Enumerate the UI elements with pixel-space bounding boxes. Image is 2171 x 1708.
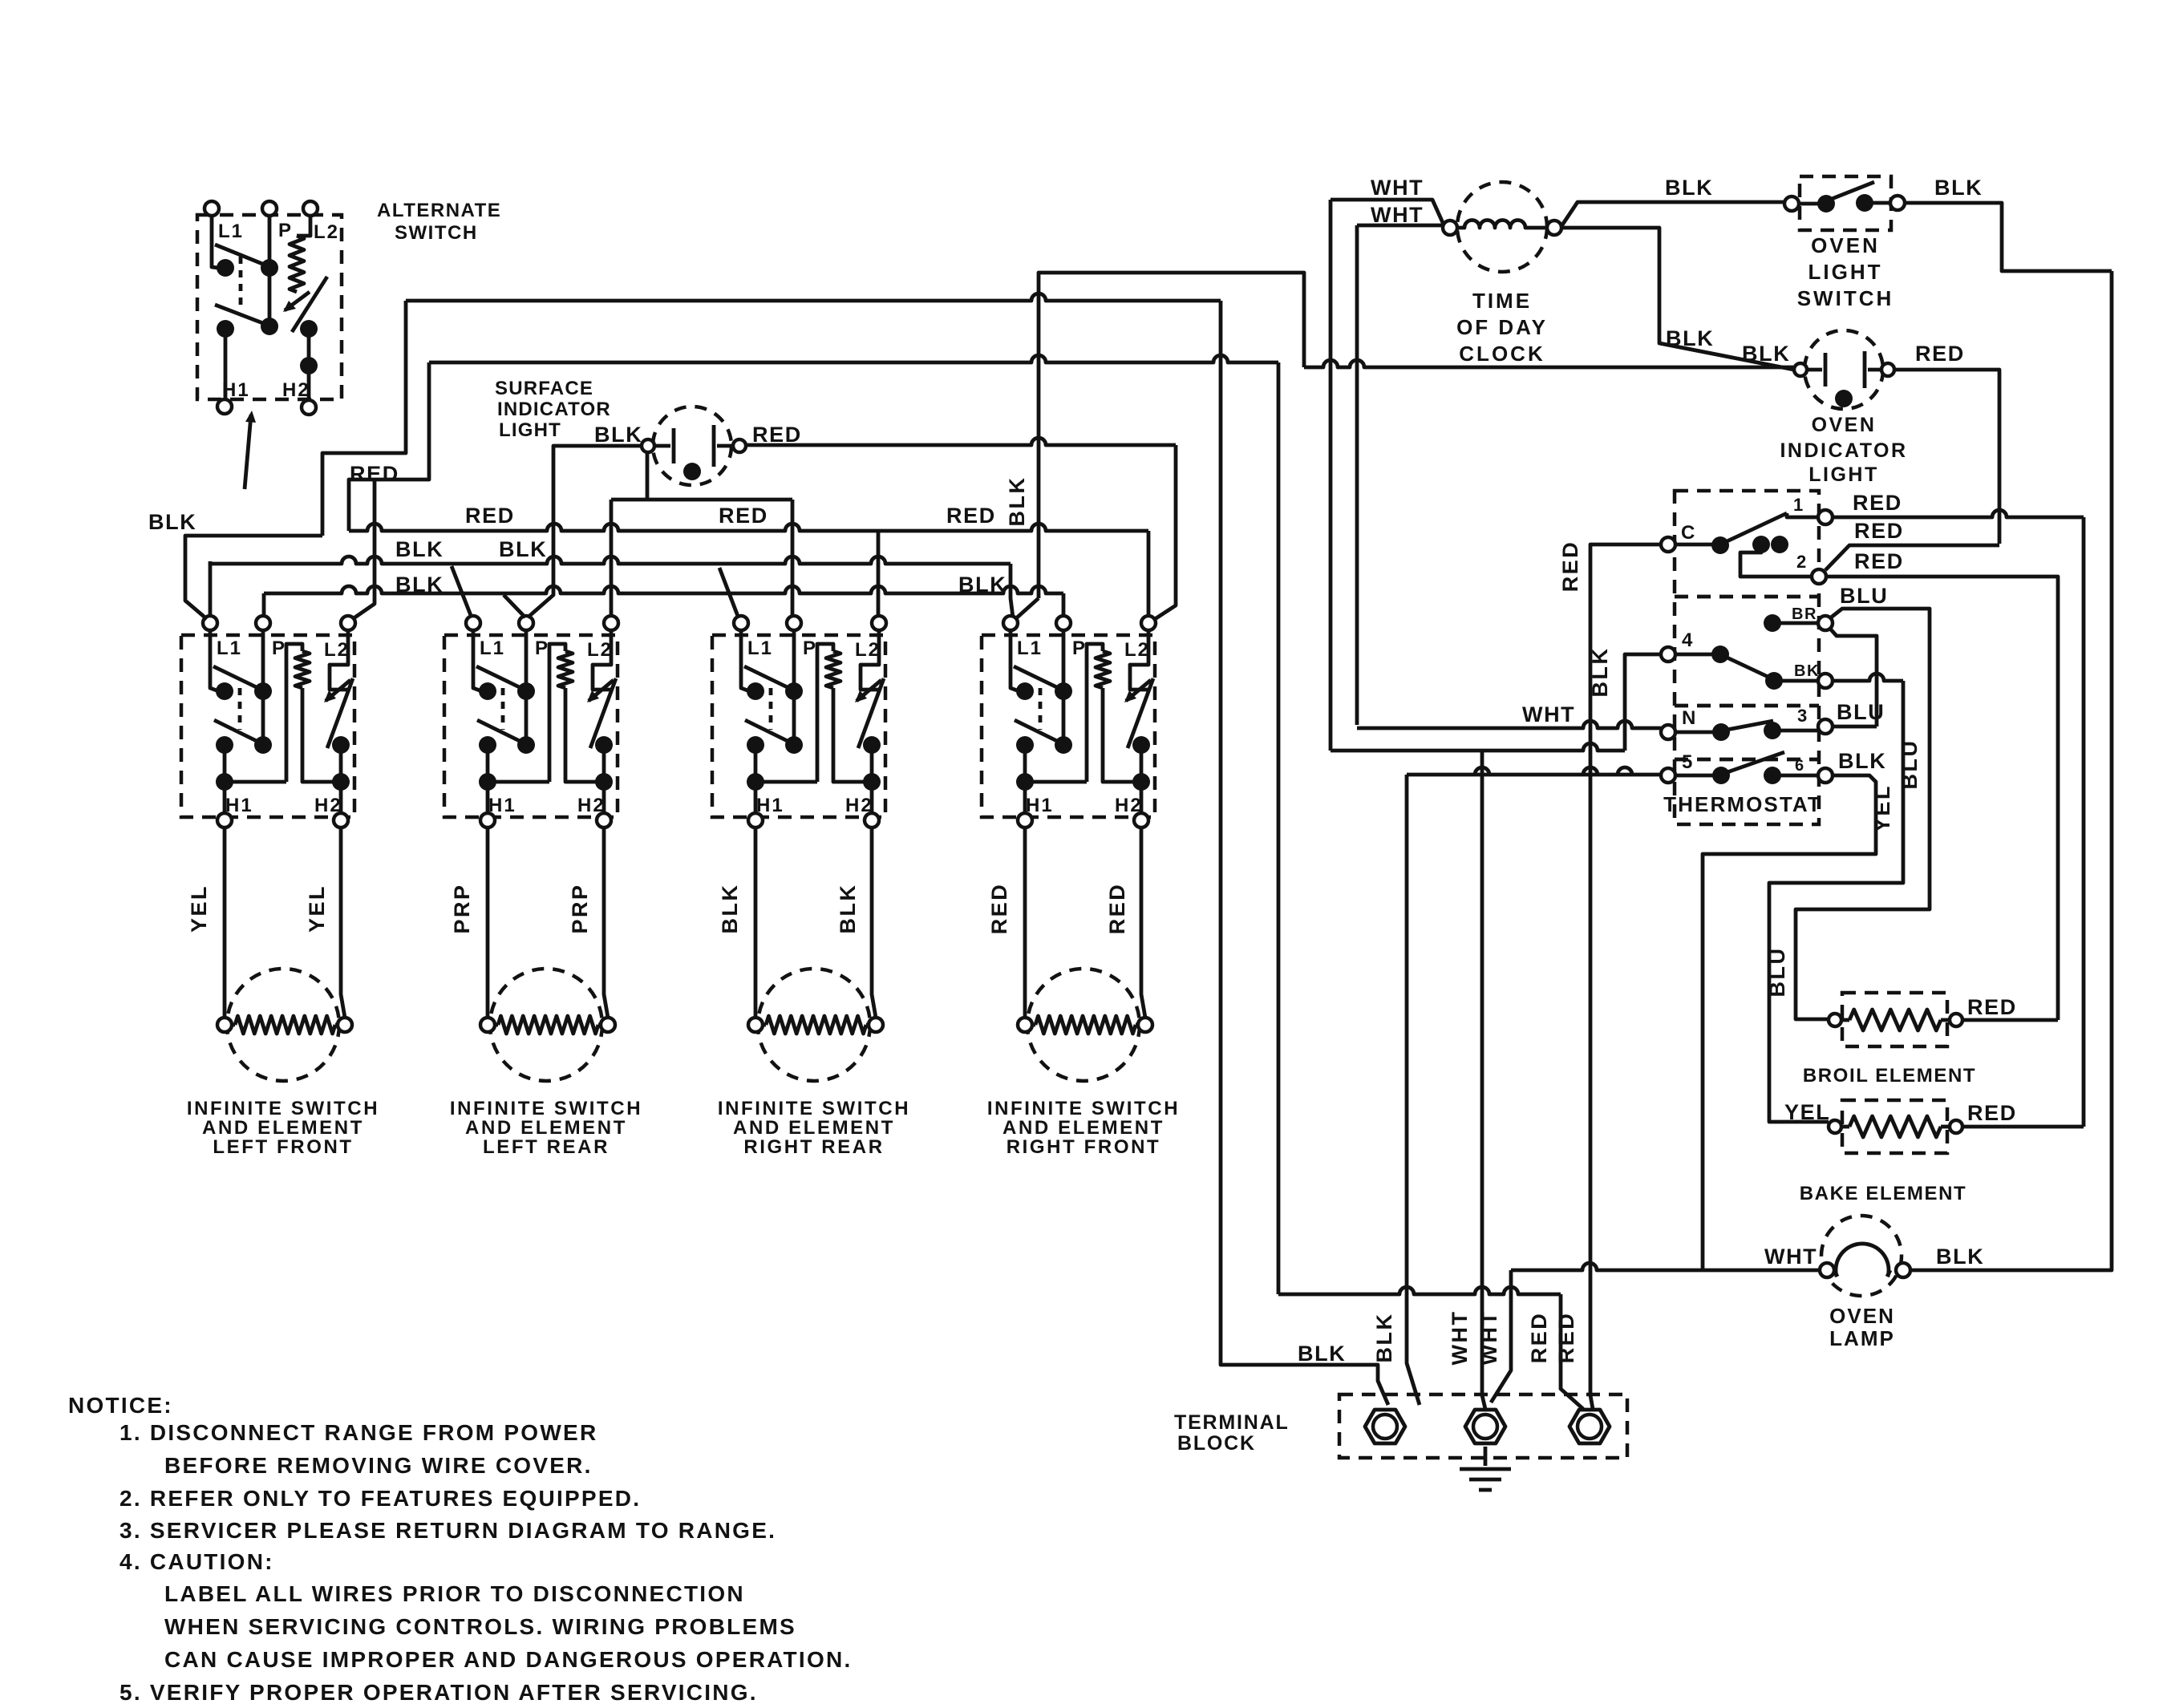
wire surface light bottom tap to L2-S2 and P-S3	[611, 452, 792, 616]
svg-text:YEL: YEL	[1784, 1100, 1830, 1124]
svg-text:BLK: BLK	[1588, 647, 1612, 698]
wire BR branch to terminal 3	[1830, 629, 1877, 727]
oven indicator light	[1794, 330, 1894, 409]
thermostat contact 4-BK	[1661, 629, 1833, 690]
svg-text:SWITCH: SWITCH	[1797, 286, 1894, 310]
svg-text:L2: L2	[324, 639, 350, 661]
label WHT (near thermostat)	[1522, 702, 1575, 727]
infinite switch S4 and element (right front)	[982, 616, 1180, 1158]
svg-text:BLK: BLK	[1298, 1342, 1346, 1366]
svg-text:RED: RED	[1554, 1312, 1578, 1364]
wire thermostat 4 to WHT net	[1625, 654, 1661, 751]
thermostat contact C-1-2	[1661, 495, 1833, 584]
svg-text:RED: RED	[1967, 995, 2017, 1019]
label BLU (terminal 3)	[1837, 700, 1885, 724]
svg-text:LIGHT: LIGHT	[1808, 463, 1879, 486]
svg-text:RED: RED	[1854, 519, 1904, 543]
svg-text:L1: L1	[480, 637, 505, 659]
svg-text:AND ELEMENT: AND ELEMENT	[202, 1117, 364, 1139]
thermostat contact N-3	[1661, 706, 1833, 741]
wire terminal 5 to terminal block BLK	[1407, 767, 1661, 1405]
svg-text:INDICATOR: INDICATOR	[497, 399, 611, 420]
wire BLK left feed to L1-S1	[185, 536, 322, 619]
svg-text:4. CAUTION:: 4. CAUTION:	[119, 1549, 274, 1574]
wire terminal 3 BLU	[1833, 725, 1877, 729]
label WHT (lamp left)	[1764, 1245, 1817, 1269]
svg-text:AND ELEMENT: AND ELEMENT	[465, 1117, 627, 1139]
label BLK (bus2 right)	[958, 573, 1007, 597]
label RED (bake right)	[1967, 1101, 2017, 1125]
infinite switch S1 and element (left front)	[181, 616, 379, 1158]
wire BLK1 tap to L1-S2	[452, 566, 472, 617]
wire oven lamp WHT	[1491, 1263, 1820, 1402]
label BROIL ELEMENT	[1803, 1065, 1976, 1087]
svg-text:PRP: PRP	[450, 883, 474, 933]
svg-text:RIGHT REAR: RIGHT REAR	[743, 1136, 884, 1158]
broil element	[1829, 993, 1962, 1046]
svg-text:L1: L1	[217, 637, 242, 659]
wire thermostat C RED to terminal block	[1590, 544, 1661, 1409]
svg-text:BLK: BLK	[1838, 749, 1886, 773]
svg-text:OVEN: OVEN	[1811, 233, 1880, 257]
svg-text:2: 2	[1796, 552, 1808, 572]
infinite switch S3 and element (right rear)	[712, 616, 910, 1158]
svg-text:BLK: BLK	[1936, 1245, 1984, 1269]
label BLK (indicator left)	[1742, 342, 1790, 366]
alternate switch	[197, 201, 342, 415]
svg-text:WHT: WHT	[1477, 1310, 1501, 1366]
svg-text:L2: L2	[1124, 639, 1150, 661]
svg-text:BROIL ELEMENT: BROIL ELEMENT	[1803, 1065, 1976, 1087]
label BLK (terminal 6)	[1838, 749, 1886, 773]
svg-text:ALTERNATE: ALTERNATE	[377, 200, 501, 221]
svg-text:BLK: BLK	[718, 884, 742, 934]
wire BK YEL to bake element	[1769, 674, 1903, 1122]
wire WHT1 from clock	[1331, 200, 1444, 751]
label BLK (bus1 mid)	[499, 537, 547, 561]
svg-text:TIME: TIME	[1472, 289, 1532, 313]
label RED (C wire, rotated)	[1558, 540, 1582, 593]
label RED (row3)	[1854, 549, 1904, 573]
wire H2 BLK to oven indicator	[1304, 360, 1793, 367]
svg-text:BLK: BLK	[395, 573, 444, 597]
label YEL (right rail, rotated)	[1870, 784, 1894, 832]
label RED (row1)	[1853, 491, 1902, 515]
wire WHT1 to thermostat 4 and terminal block	[1331, 743, 1625, 1409]
svg-text:CAN CAUSE IMPROPER AND DANGERO: CAN CAUSE IMPROPER AND DANGEROUS OPERATI…	[164, 1647, 852, 1672]
svg-text:L1: L1	[747, 637, 773, 659]
label RED (upper left)	[350, 462, 399, 486]
label THERMOSTAT	[1663, 792, 1822, 816]
wire RED tap to L2-S1	[354, 480, 375, 618]
svg-text:L1: L1	[218, 221, 244, 242]
wire BLK1 bus	[210, 557, 1011, 614]
svg-text:WHT: WHT	[1448, 1310, 1472, 1366]
label RED (block drop, rotated)	[1527, 1312, 1551, 1364]
svg-text:H2: H2	[282, 379, 310, 401]
label TIME OF DAY CLOCK	[1456, 289, 1548, 366]
svg-text:AND ELEMENT: AND ELEMENT	[733, 1117, 895, 1139]
svg-text:L1: L1	[1017, 637, 1043, 659]
svg-text:NOTICE:: NOTICE:	[68, 1393, 173, 1418]
infinite switch S2 and element (left rear)	[444, 616, 642, 1158]
thermostat contact BR	[1764, 605, 1833, 632]
wire terminal 6 BLK to oven lamp net	[1703, 775, 1876, 1269]
svg-text:3. SERVICER PLEASE RETURN DIAG: 3. SERVICER PLEASE RETURN DIAGRAM TO RAN…	[119, 1518, 776, 1543]
svg-text:LEFT REAR: LEFT REAR	[483, 1136, 610, 1158]
svg-text:OVEN: OVEN	[1812, 414, 1877, 436]
svg-text:6: 6	[1795, 757, 1805, 775]
wire BLK2 tap to P-S2	[504, 595, 525, 617]
svg-text:BLK: BLK	[836, 884, 860, 934]
svg-text:RED: RED	[1915, 342, 1965, 366]
svg-text:BLK: BLK	[958, 573, 1007, 597]
label TERMINAL BLOCK	[1174, 1411, 1290, 1455]
svg-text:BLK: BLK	[594, 423, 642, 447]
label OVEN LAMP	[1829, 1304, 1895, 1350]
wire clock BLK to oven light switch	[1561, 202, 1784, 226]
svg-text:WHT: WHT	[1371, 203, 1424, 227]
svg-text:TERMINAL: TERMINAL	[1174, 1411, 1290, 1434]
svg-text:P: P	[278, 220, 293, 241]
svg-text:BLK: BLK	[1934, 176, 1983, 200]
svg-text:L2: L2	[855, 639, 881, 661]
svg-text:INFINITE SWITCH: INFINITE SWITCH	[987, 1098, 1180, 1119]
svg-text:P: P	[803, 637, 817, 659]
bake element	[1829, 1100, 1962, 1153]
label BLK (bottom)	[1298, 1342, 1346, 1366]
label YEL (bake left)	[1784, 1100, 1830, 1124]
label RED (indicator right)	[1915, 342, 1965, 366]
svg-text:1. DISCONNECT RANGE FROM POWER: 1. DISCONNECT RANGE FROM POWER	[119, 1420, 597, 1445]
svg-text:RED: RED	[1105, 883, 1129, 935]
wire surface light RED to L2 of S4	[746, 438, 1176, 619]
notice text	[68, 1393, 852, 1705]
svg-text:PRP: PRP	[568, 883, 592, 933]
label OVEN INDICATOR LIGHT	[1780, 414, 1907, 486]
thermostat contact 5-6	[1661, 751, 1833, 784]
svg-text:RED: RED	[987, 883, 1011, 935]
label RED (bus left)	[465, 504, 515, 528]
wire RED feed to terminal block	[1278, 362, 1583, 1409]
wire BLK2 bus	[264, 586, 1063, 616]
oven lamp	[1820, 1216, 1910, 1296]
wire surface light BLK to P of S2	[528, 446, 642, 617]
svg-text:LABEL ALL WIRES PRIOR TO DISCO: LABEL ALL WIRES PRIOR TO DISCONNECTION	[164, 1581, 745, 1606]
svg-text:5: 5	[1682, 751, 1694, 773]
svg-text:RED: RED	[1853, 491, 1902, 515]
svg-text:BLK: BLK	[148, 510, 196, 534]
wire WHT2 from clock	[1357, 225, 1444, 725]
svg-text:YEL: YEL	[1870, 784, 1894, 832]
svg-text:BAKE ELEMENT: BAKE ELEMENT	[1800, 1183, 1967, 1204]
svg-text:LIGHT: LIGHT	[499, 419, 561, 441]
svg-text:RED: RED	[719, 504, 768, 528]
label BLU (BR wire)	[1840, 584, 1888, 608]
label BLK (riser, rotated)	[1005, 476, 1029, 527]
svg-text:SURFACE: SURFACE	[495, 378, 593, 399]
svg-text:P: P	[535, 637, 549, 659]
time of day clock	[1443, 182, 1561, 272]
label BLK (diagonal to indicator)	[1666, 326, 1714, 350]
svg-text:2. REFER ONLY TO FEATURES EQUI: 2. REFER ONLY TO FEATURES EQUIPPED.	[119, 1486, 641, 1511]
label BLU (right rail, rotated)	[1898, 739, 1922, 790]
svg-text:CLOCK: CLOCK	[1459, 342, 1545, 366]
svg-text:P: P	[1072, 637, 1087, 659]
wire BLK1 end to L1-S4	[1011, 593, 1013, 617]
svg-text:RED: RED	[752, 423, 802, 447]
terminal block	[1339, 1394, 1627, 1458]
svg-text:4: 4	[1682, 629, 1694, 651]
label RED (block drop2, rotated)	[1554, 1312, 1578, 1364]
svg-text:BR: BR	[1792, 605, 1817, 623]
wire bake right RED	[1963, 1125, 2084, 1129]
wire RED bus tap to L2-S3	[877, 531, 881, 616]
svg-text:SWITCH: SWITCH	[395, 222, 478, 244]
label BLK (lamp right)	[1936, 1245, 1984, 1269]
svg-text:LEFT FRONT: LEFT FRONT	[213, 1136, 353, 1158]
svg-text:RIGHT FRONT: RIGHT FRONT	[1007, 1136, 1161, 1158]
svg-text:BEFORE REMOVING WIRE COVER.: BEFORE REMOVING WIRE COVER.	[164, 1453, 593, 1478]
svg-text:AND ELEMENT: AND ELEMENT	[1002, 1117, 1164, 1139]
wire BLK1 tap to L1-S3	[719, 568, 739, 618]
wire H2 RED horizontal (surface bus riser)	[349, 355, 1278, 531]
svg-text:RED: RED	[465, 504, 515, 528]
svg-text:N: N	[1682, 707, 1697, 729]
svg-text:WHEN SERVICING CONTROLS. WIRIN: WHEN SERVICING CONTROLS. WIRING PROBLEMS	[164, 1614, 796, 1639]
wire RED row2 (terminal 2 diagonal to indicator rail)	[1825, 545, 1999, 570]
label OVEN LIGHT SWITCH	[1797, 233, 1894, 310]
svg-text:OF DAY: OF DAY	[1456, 315, 1548, 339]
label SURFACE INDICATOR LIGHT	[495, 378, 611, 441]
svg-text:RED: RED	[1854, 549, 1904, 573]
label ALTERNATE SWITCH	[377, 200, 501, 244]
svg-text:1: 1	[1793, 495, 1804, 515]
label BAKE ELEMENT	[1800, 1183, 1967, 1204]
label BLK (wire 5, rotated)	[1372, 1313, 1396, 1363]
wire BLK riser to indicator net	[1015, 273, 1304, 619]
label BLU (broil drop, rotated)	[1765, 947, 1789, 998]
svg-text:WHT: WHT	[1764, 1245, 1817, 1269]
svg-text:YEL: YEL	[187, 884, 211, 933]
wire WHT2 to thermostat N	[1357, 721, 1661, 728]
wire BLK feed to terminal block	[1221, 301, 1388, 1405]
label BLK (left feed)	[148, 510, 196, 534]
svg-text:OVEN: OVEN	[1829, 1304, 1895, 1328]
wire RED row1 (terminal 1 to bake rail)	[1833, 510, 2084, 1127]
svg-text:INFINITE SWITCH: INFINITE SWITCH	[450, 1098, 642, 1119]
svg-text:BLU: BLU	[1898, 739, 1922, 790]
label BLK (light switch right)	[1934, 176, 1983, 200]
svg-text:L2: L2	[587, 639, 613, 661]
svg-text:BLK: BLK	[1372, 1313, 1396, 1363]
label WHT (second)	[1371, 203, 1424, 227]
svg-text:INFINITE SWITCH: INFINITE SWITCH	[718, 1098, 910, 1119]
ground symbol	[1460, 1447, 1511, 1490]
svg-text:BK: BK	[1794, 662, 1820, 680]
svg-text:LIGHT: LIGHT	[1808, 260, 1883, 284]
svg-text:BLOCK: BLOCK	[1177, 1432, 1256, 1455]
svg-text:BLU: BLU	[1837, 700, 1885, 724]
svg-text:RED: RED	[1527, 1312, 1551, 1364]
svg-text:C: C	[1681, 522, 1696, 544]
oven light switch	[1784, 176, 1905, 230]
svg-text:BLK: BLK	[1005, 476, 1029, 527]
wire broil right RED	[1963, 1018, 2058, 1022]
label BLK (wire 4, rotated)	[1588, 647, 1612, 698]
svg-text:RED: RED	[946, 504, 996, 528]
label WHT (block, rotated)	[1448, 1310, 1472, 1366]
surface indicator light	[642, 407, 746, 485]
label RED (bus right)	[946, 504, 996, 528]
label RED (broil right)	[1967, 995, 2017, 1019]
svg-text:YEL: YEL	[305, 884, 329, 933]
label BLK (surface light left)	[594, 423, 642, 447]
svg-text:RED: RED	[1558, 540, 1582, 593]
svg-text:BLK: BLK	[1666, 326, 1714, 350]
wire BR BLU to broil element	[1796, 609, 1930, 1019]
svg-text:INFINITE SWITCH: INFINITE SWITCH	[187, 1098, 379, 1119]
svg-text:THERMOSTAT: THERMOSTAT	[1663, 792, 1822, 816]
wire RED row3 (terminal 2 to broil rail)	[1826, 577, 2058, 1020]
svg-text:WHT: WHT	[1371, 176, 1424, 200]
wire oven lamp BLK right rail	[1910, 271, 2112, 1270]
svg-text:RED: RED	[1967, 1101, 2017, 1125]
label WHT (top)	[1371, 176, 1424, 200]
svg-text:P: P	[272, 637, 286, 659]
svg-text:BLK: BLK	[395, 537, 444, 561]
svg-text:BLU: BLU	[1840, 584, 1888, 608]
wire oven indicator RED down	[1895, 370, 1999, 544]
svg-text:BLK: BLK	[1665, 176, 1713, 200]
svg-text:3: 3	[1797, 706, 1808, 726]
svg-text:5. VERIFY PROPER OPERATION AFT: 5. VERIFY PROPER OPERATION AFTER SERVICI…	[119, 1680, 758, 1705]
label RED (bus mid)	[719, 504, 768, 528]
svg-text:BLK: BLK	[1742, 342, 1790, 366]
wire clock BLK down to indicator	[1561, 228, 1794, 370]
svg-text:LAMP: LAMP	[1829, 1326, 1895, 1350]
wire H1 BLK riser and horizontal	[322, 293, 1221, 536]
wire RED bus	[349, 524, 1148, 616]
label WHT (block2, rotated)	[1477, 1310, 1501, 1366]
label BLK (bus2 left)	[395, 573, 444, 597]
label RED (surface light right)	[752, 423, 802, 447]
wire oven light switch BLK to right rail	[1905, 203, 2112, 271]
label BLK (bus1 left)	[395, 537, 444, 561]
alternate switch callout arrow	[245, 411, 256, 489]
label BLK (to light switch)	[1665, 176, 1713, 200]
thermostat box	[1675, 491, 1819, 824]
svg-text:WHT: WHT	[1522, 702, 1575, 727]
svg-text:BLK: BLK	[499, 537, 547, 561]
label RED (row2)	[1854, 519, 1904, 543]
svg-text:INDICATOR: INDICATOR	[1780, 439, 1907, 462]
svg-text:L2: L2	[314, 221, 339, 243]
